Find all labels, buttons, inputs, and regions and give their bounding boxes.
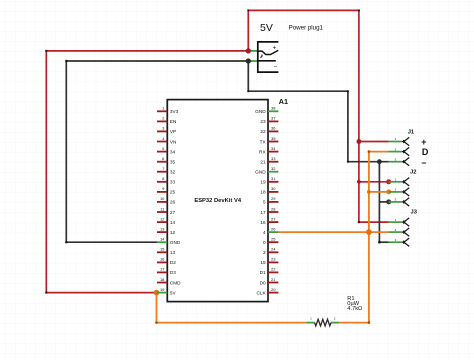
wire GND net: dark vertical left side [65, 61, 67, 242]
wire GND net: dark horizontal upper-left [66, 60, 248, 62]
ESP32 right pin 24 (2) stub [268, 251, 278, 253]
ESP32 right pin 34 (RX) stub [268, 151, 278, 153]
svg-text:J2: J2 [410, 170, 416, 176]
svg-text:CLK: CLK [256, 290, 266, 295]
svg-text:33: 33 [170, 180, 176, 185]
resistor R1 right lead [331, 322, 339, 324]
ESP32 right pin 20 (CLK) stub [268, 292, 278, 294]
power plug PWR1 pin + green stub [248, 50, 257, 52]
svg-text:4: 4 [263, 230, 266, 235]
svg-text:VP: VP [170, 129, 176, 134]
svg-text:−: − [274, 63, 278, 70]
svg-text:4.7kΩ: 4.7kΩ [347, 306, 362, 312]
svg-text:12: 12 [170, 230, 176, 235]
svg-text:15: 15 [260, 260, 266, 265]
ESP32 right pin 28 (17) stub [268, 211, 278, 213]
svg-text:32: 32 [170, 170, 176, 175]
junction bend orange corner at J1 row [368, 150, 371, 153]
wire GND net: dark horizontal mid [248, 90, 348, 92]
svg-text:38: 38 [271, 106, 276, 111]
power plug PWR1 body [258, 42, 279, 72]
wire signal net: orange vertical from ESP32 5V pin [156, 293, 158, 323]
junction bend dark corner upper-left [65, 60, 67, 62]
connector J1 pin 3 [389, 157, 410, 166]
junction bend red top corner at plug column [247, 9, 249, 11]
ESP32 left pin 10 (26) stub [157, 201, 167, 203]
svg-text:13: 13 [170, 250, 176, 255]
ESP32 right pin 21 (D0) stub [268, 282, 278, 284]
wire signal net: orange branch to J1 pin 2 [369, 151, 389, 153]
ESP32 left pin 17 (D3) stub [157, 271, 167, 273]
svg-text:30: 30 [271, 186, 276, 191]
junction dark T at J1 pin 3 [377, 159, 382, 164]
svg-text:D2: D2 [170, 260, 176, 265]
ESP32 left pin 7 (32) stub [157, 171, 167, 173]
svg-text:D: D [422, 147, 429, 157]
wire 5V net: red vertical up from plug junction [247, 10, 249, 51]
svg-text:D3: D3 [170, 270, 176, 275]
junction orange T at J2 branch [367, 190, 371, 194]
svg-text:18: 18 [160, 277, 165, 282]
junction red T at J2 branch [357, 180, 361, 184]
svg-text:5: 5 [263, 200, 266, 205]
junction bend dark corner below plug [247, 90, 249, 92]
svg-text:28: 28 [271, 206, 276, 211]
wire 5V net: red branch to J1 pin 1 [359, 141, 389, 143]
svg-text:27: 27 [271, 216, 276, 221]
wire GND net: dark vertical below plug junction [247, 61, 249, 91]
svg-text:21: 21 [271, 277, 276, 282]
junction dark dot at J2 pin 3 [386, 199, 391, 204]
svg-text:D0: D0 [260, 280, 266, 285]
svg-text:23: 23 [260, 119, 266, 124]
svg-text:VN: VN [170, 139, 177, 144]
ESP32 left pin 12 (14) stub [157, 221, 167, 223]
wire 5V net: red branch to J3 pin 1 [359, 221, 389, 223]
wire signal net: orange branch to J2 pin 2 [369, 191, 389, 193]
svg-text:24: 24 [271, 247, 276, 252]
junction bend dark corner at J3 row [378, 241, 381, 244]
ESP32 right pin 31 (19) stub [268, 181, 278, 183]
svg-text:29: 29 [271, 196, 276, 201]
ESP32 left pin 14 (GND) stub [157, 241, 167, 243]
ESP32 left pin 16 (D2) stub [157, 261, 167, 263]
svg-text:15: 15 [160, 247, 165, 252]
resistor R1 left lead [306, 322, 314, 324]
svg-text:GND: GND [255, 170, 266, 175]
wire GND net: dark branch to J3 pin 3 [379, 241, 388, 243]
svg-text:20: 20 [271, 287, 276, 292]
junction bend red corner to J3 [358, 221, 360, 223]
svg-text:+: + [273, 44, 277, 51]
svg-text:26: 26 [170, 200, 176, 205]
connector J1 pin 2 [389, 147, 410, 155]
wire GND net: dark horizontal to J1 pin 3 [348, 161, 389, 163]
svg-text:16: 16 [260, 220, 266, 225]
wire signal net: orange horizontal left of R1 [157, 322, 307, 324]
svg-text:2: 2 [263, 250, 266, 255]
wire GND net: dark vertical J1 to J3 [378, 162, 380, 243]
ESP32 right pin 35 (TX) stub [268, 141, 278, 143]
svg-text:35: 35 [271, 136, 276, 141]
junction red T at J1 branch [357, 139, 362, 144]
svg-text:14: 14 [170, 220, 176, 225]
svg-text:−: − [421, 158, 426, 168]
connector J3 pin 1 [389, 218, 410, 226]
ESP32 right pin 37 (23) stub [268, 120, 278, 122]
wire GND net: dark vertical to J1 row [347, 91, 349, 162]
svg-text:RX: RX [259, 149, 266, 154]
connector J2 pin 2 [389, 188, 410, 196]
svg-text:25: 25 [170, 190, 176, 195]
connector J3 pin 3 [389, 238, 410, 247]
ESP32 left pin 11 (27) stub [157, 211, 167, 213]
svg-text:25: 25 [271, 237, 276, 242]
junction bend orange corner bottom-left [155, 321, 158, 324]
junction bend red top-right corner [358, 9, 360, 11]
ESP32 left pin 1 (3V3) stub [157, 110, 167, 112]
connector J2 pin 1 [389, 178, 410, 186]
svg-text:5V: 5V [260, 22, 273, 34]
svg-text:32: 32 [271, 166, 276, 171]
ESP32 left pin 15 (13) stub [157, 251, 167, 253]
svg-text:D1: D1 [260, 270, 266, 275]
wire 5V net: red horizontal to ESP32 5V pin [46, 292, 156, 294]
junction bend bottom-left red corner [45, 291, 47, 293]
ESP32 left pin 3 (VP) stub [157, 130, 167, 132]
ESP32 right pin 38 (GND) stub [268, 110, 278, 112]
svg-text:23: 23 [271, 257, 276, 262]
connector J2 pin 3 [389, 198, 410, 207]
svg-text:TX: TX [260, 139, 267, 144]
ESP32 left pin 18 (CMD) stub [157, 282, 167, 284]
ESP32 left pin 9 (25) stub [157, 191, 167, 193]
junction orange dot at J2 pin 2 [386, 189, 391, 194]
svg-text:GND: GND [255, 109, 266, 114]
svg-text:22: 22 [260, 129, 266, 134]
ESP32 right pin 29 (5) stub [268, 201, 278, 203]
svg-text:A1: A1 [279, 97, 288, 106]
wire signal net: orange vertical J1 to J3 [368, 152, 370, 233]
svg-text:Power plug1: Power plug1 [289, 25, 324, 32]
svg-text:22: 22 [271, 267, 276, 272]
ESP32 left pin 13 (12) stub [157, 231, 167, 233]
junction bend dark corner at J1 row [347, 161, 349, 163]
svg-text:J1: J1 [408, 130, 415, 136]
wire GND net: dark branch to J2 pin 3 [379, 201, 389, 203]
junction bend dark corner mid-right [347, 90, 349, 92]
ESP32 right pin 32 (GND) stub [268, 171, 278, 173]
svg-text:0: 0 [263, 240, 266, 245]
ESP32 right pin 30 (18) stub [268, 191, 278, 193]
wire 5V net: red vertical right side [358, 10, 360, 222]
ESP32 right pin 23 (15) stub [268, 261, 278, 263]
power plug PWR1 pin - green stub [248, 60, 257, 62]
svg-text:33: 33 [271, 156, 276, 161]
wire GND net: dark horizontal to ESP32 GND pin [66, 241, 157, 243]
connector J3 pin 2 [389, 228, 410, 237]
svg-text:CMD: CMD [170, 280, 181, 285]
wire 5V net: red vertical left side [45, 51, 47, 293]
junction red dot at J2 pin 1 [386, 179, 391, 184]
svg-text:26: 26 [271, 226, 276, 231]
ESP32 left pin 4 (VN) stub [157, 141, 167, 143]
svg-text:14: 14 [160, 237, 165, 242]
svg-text:J3: J3 [411, 210, 418, 216]
svg-text:12: 12 [160, 216, 165, 221]
ESP32 right pin 33 (21) stub [268, 161, 278, 163]
svg-text:21: 21 [260, 160, 266, 165]
ESP32 right pin 27 (16) stub [268, 221, 278, 223]
junction bend top-left red corner [45, 50, 47, 52]
svg-text:31: 31 [271, 176, 276, 181]
ESP32 right pin 36 (22) stub [268, 130, 278, 132]
svg-text:34: 34 [170, 149, 176, 154]
junction bend orange corner bottom-right [368, 321, 371, 324]
svg-text:35: 35 [170, 160, 176, 165]
svg-text:27: 27 [170, 210, 176, 215]
ESP32 left pin 5 (34) stub [157, 151, 167, 153]
wire signal net: orange vertical down to resistor row [368, 232, 370, 323]
svg-text:37: 37 [271, 116, 276, 121]
wire signal net: orange to J3 pin 2 [369, 231, 389, 233]
svg-text:34: 34 [271, 146, 276, 151]
svg-text:19: 19 [160, 287, 165, 292]
junction red dot at plug + terminal [246, 48, 251, 53]
junction orange dot at J3 pin 2 cross [366, 229, 372, 235]
ESP32 left pin 6 (35) stub [157, 161, 167, 163]
junction dark dot at plug - terminal [246, 58, 251, 63]
svg-text:EN: EN [170, 119, 177, 124]
resistor R1 zigzag body [315, 319, 331, 326]
wire 5V net: red branch to J2 pin 1 [359, 181, 389, 183]
ESP32 left pin 2 (EN) stub [157, 120, 167, 122]
ESP32 right pin 22 (D1) stub [268, 271, 278, 273]
connector J1 pin 1 [389, 137, 410, 146]
wire 5V net: red horizontal top-left [46, 50, 248, 52]
svg-text:+: + [421, 137, 426, 147]
junction bend dark corner at ESP32 GND row [65, 241, 67, 243]
ESP32 left pin 8 (33) stub [157, 181, 167, 183]
svg-text:19: 19 [260, 180, 266, 185]
svg-text:ESP32 DevKit V4: ESP32 DevKit V4 [194, 198, 241, 204]
junction orange dot at ESP32 5V pin [154, 290, 160, 296]
svg-text:16: 16 [160, 257, 165, 262]
svg-text:17: 17 [260, 210, 266, 215]
svg-text:10: 10 [160, 196, 165, 201]
wire 5V net: red horizontal along top [248, 9, 359, 11]
svg-text:17: 17 [160, 267, 165, 272]
svg-text:GND: GND [170, 240, 181, 245]
ESP32 left pin 19 (5V) stub [157, 292, 167, 294]
svg-text:36: 36 [271, 126, 276, 131]
ESP32 right pin 25 (0) stub [268, 241, 278, 243]
ESP32 right pin 26 (4) stub [268, 231, 278, 233]
ESP32 DevKit V4 module A1 body [167, 100, 268, 302]
svg-text:13: 13 [160, 226, 165, 231]
svg-text:3V3: 3V3 [170, 109, 179, 114]
wire signal net: orange from ESP32 pin 4 [278, 231, 369, 233]
svg-text:18: 18 [260, 190, 266, 195]
svg-text:5V: 5V [170, 290, 177, 295]
wire signal net: orange horizontal right of R1 [339, 322, 369, 324]
